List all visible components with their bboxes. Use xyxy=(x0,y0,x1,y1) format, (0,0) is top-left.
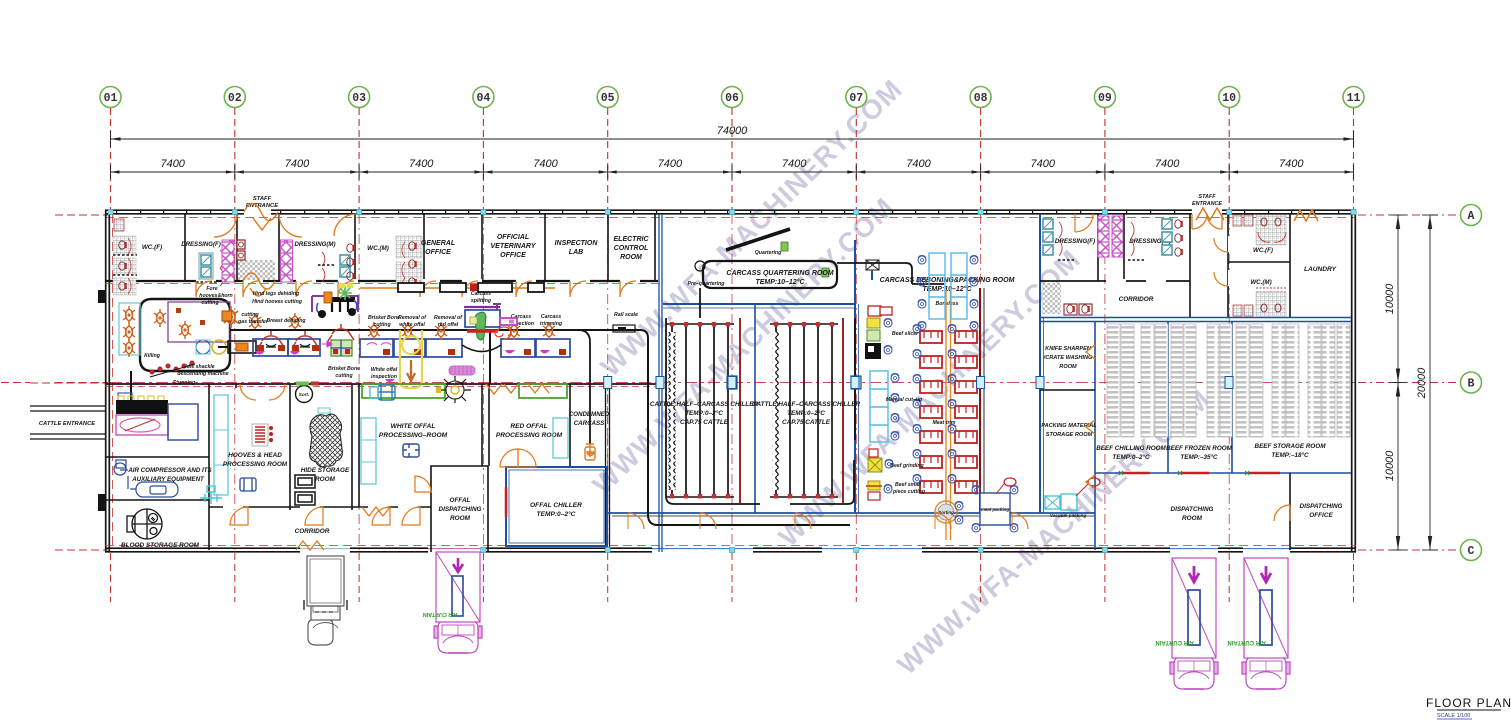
left section inner walls xyxy=(208,384,210,550)
carcass splitting cluster xyxy=(462,304,517,352)
mid horizontal wall at B left section xyxy=(105,383,236,385)
svg-text:ROOM: ROOM xyxy=(1059,364,1077,370)
svg-text:A: A xyxy=(1468,210,1475,223)
rack rooms verticals xyxy=(1094,322,1096,550)
svg-text:Beef slicer: Beef slicer xyxy=(892,331,919,337)
red offal room walls xyxy=(488,384,490,466)
electric control room right wall / quartering left blue wall xyxy=(654,214,656,281)
svg-text:7400: 7400 xyxy=(285,158,310,170)
svg-text:CARCASS: CARCASS xyxy=(574,420,605,427)
top band bottom wall xyxy=(105,280,658,282)
svg-text:TEMP:–18°C: TEMP:–18°C xyxy=(1271,451,1309,459)
svg-text:OFFICE: OFFICE xyxy=(425,249,451,256)
killing pen xyxy=(119,303,140,355)
hall machines row xyxy=(196,340,256,354)
condemned rail lamp xyxy=(585,447,595,460)
svg-text:Manual cut–up: Manual cut–up xyxy=(886,397,922,403)
svg-text:White offal: White offal xyxy=(371,367,398,373)
svg-text:BEEF STORAGE ROOM: BEEF STORAGE ROOM xyxy=(1255,443,1327,450)
svg-text:Removal of: Removal of xyxy=(398,315,427,321)
svg-text:piece cutting: piece cutting xyxy=(892,489,926,495)
svg-text:07: 07 xyxy=(849,92,863,105)
deboning: overhead rail orange xyxy=(946,290,951,540)
svg-text:Sort.: Sort. xyxy=(299,392,309,397)
svg-text:hooves&horn: hooves&horn xyxy=(199,293,232,299)
staff entrance opening 1 (white gaps in top wall) xyxy=(244,209,271,216)
rack rooms top blue double wall xyxy=(1040,318,1351,322)
svg-text:10000: 10000 xyxy=(1384,283,1396,314)
svg-text:74000: 74000 xyxy=(717,125,748,137)
main line black y330 xyxy=(230,329,640,331)
svg-text:20000: 20000 xyxy=(1416,367,1428,399)
svg-text:CONTROL: CONTROL xyxy=(614,245,649,252)
pallet racks room3 xyxy=(1236,324,1249,437)
svg-text:RED OFFAL: RED OFFAL xyxy=(510,423,547,430)
svg-text:Stunning: Stunning xyxy=(173,380,196,386)
svg-text:03: 03 xyxy=(352,92,366,105)
top band: WC(F) fixtures xyxy=(113,219,137,295)
svg-text:Meat trim: Meat trim xyxy=(932,420,955,426)
door arcs lower area xyxy=(230,507,248,525)
refrigerated truck 2 xyxy=(1155,558,1218,689)
offal dispatching room xyxy=(431,466,488,552)
corridor wall left bottom xyxy=(209,506,431,508)
air compressor tank xyxy=(114,460,178,497)
svg-text:TEMP:10–12°C: TEMP:10–12°C xyxy=(922,285,972,293)
right section: top rooms partitions xyxy=(1097,214,1099,281)
row bubbles A B C right side xyxy=(1461,205,1482,226)
quartering rail risers xyxy=(979,288,981,513)
svg-text:BLOOD STORAGE ROOM: BLOOD STORAGE ROOM xyxy=(121,542,200,549)
svg-text:cutting: cutting xyxy=(201,300,219,306)
grid column bubbles 01-11 xyxy=(100,87,121,108)
svg-text:ROOM: ROOM xyxy=(620,254,642,261)
svg-text:Carcass: Carcass xyxy=(471,291,491,297)
WC(F) right xyxy=(1233,215,1286,245)
svg-text:ROOM: ROOM xyxy=(450,515,471,522)
svg-text:Quartering: Quartering xyxy=(755,250,782,256)
offal chiller blue room xyxy=(506,467,607,546)
svg-text:Brisket Bone: Brisket Bone xyxy=(328,366,360,372)
overhead platform row xyxy=(360,287,555,289)
svg-text:HOOVES & HEAD: HOOVES & HEAD xyxy=(228,452,282,459)
gray truck at dock 03 xyxy=(304,556,347,645)
svg-text:FLOOR PLAN: FLOOR PLAN xyxy=(1426,696,1511,710)
svg-text:TEMP:0–2°C: TEMP:0–2°C xyxy=(1112,453,1150,461)
rack rooms bottom wall with red doors xyxy=(1095,472,1351,474)
svg-text:01: 01 xyxy=(104,92,118,105)
svg-text:Pre–quartering: Pre–quartering xyxy=(688,281,726,287)
svg-text:ROOM: ROOM xyxy=(1182,515,1203,522)
zigzag symbols on B wall and bottom docks xyxy=(362,507,390,516)
pallet racks room1 xyxy=(1107,324,1120,437)
svg-text:Beef grinding: Beef grinding xyxy=(890,463,924,469)
chiller return conveyors xyxy=(666,318,855,504)
svg-text:7400: 7400 xyxy=(782,158,807,170)
svg-text:STAFF: STAFF xyxy=(253,196,272,202)
svg-text:Hind legs dehiding: Hind legs dehiding xyxy=(253,291,300,297)
svg-text:CATTLE ENTRANCE: CATTLE ENTRANCE xyxy=(39,421,96,427)
svg-text:09: 09 xyxy=(1098,92,1112,105)
svg-text:TEMP:0–2°C: TEMP:0–2°C xyxy=(787,409,825,417)
pallet racks room2 xyxy=(1171,324,1183,437)
svg-text:DRESSING(M): DRESSING(M) xyxy=(295,241,336,248)
deboning room right blue wall xyxy=(1039,214,1041,513)
svg-text:meat packing: meat packing xyxy=(981,507,1009,512)
svg-text:CORRIDOR: CORRIDOR xyxy=(295,528,330,535)
svg-text:B: B xyxy=(1468,378,1475,391)
svg-text:STAFF: STAFF xyxy=(1199,194,1217,200)
svg-text:Fore: Fore xyxy=(206,286,217,292)
meat packing table xyxy=(972,478,1018,532)
condemned carcass passage wall xyxy=(606,384,610,551)
lattice screens right section xyxy=(1098,216,1109,257)
svg-text:VETERINARY: VETERINARY xyxy=(491,243,537,250)
hooves machine red xyxy=(252,424,273,446)
deboning left equipment column xyxy=(865,306,892,359)
hooves room rack cyan xyxy=(214,395,228,495)
svg-text:OFFAL CHILLER: OFFAL CHILLER xyxy=(530,502,582,509)
hide pile crosshatch xyxy=(310,414,343,467)
svg-text:OFFAL: OFFAL xyxy=(450,497,471,504)
svg-text:DISPATCHING: DISPATCHING xyxy=(1299,503,1342,510)
window mullion ticks on top wall xyxy=(116,210,117,215)
cyan sprayer cluster xyxy=(200,486,222,504)
sort circle xyxy=(296,386,313,403)
corridor door arcs right half xyxy=(628,513,644,529)
dressing(F) right: lockers xyxy=(1043,219,1053,229)
wall y384 from hooves to white offal xyxy=(236,383,660,385)
svg-text:7400: 7400 xyxy=(1031,158,1056,170)
right corridor xyxy=(1042,283,1061,314)
magenta comb conveyor xyxy=(449,366,475,375)
dock openings in bottom wall xyxy=(300,547,350,553)
orange squiggles on rack room left wall xyxy=(1086,345,1095,489)
svg-text:Hind hooves cutting: Hind hooves cutting xyxy=(252,299,303,305)
refrigerated truck 1 (offal dock) xyxy=(423,552,482,653)
svg-text:INSPECTION: INSPECTION xyxy=(555,240,599,247)
svg-text:CARCASS DEBONING&PACKING ROO: CARCASS DEBONING&PACKING ROOM xyxy=(880,277,1015,284)
beef grinding xyxy=(868,449,893,472)
blood storage tank xyxy=(127,509,162,539)
svg-text:white offal: white offal xyxy=(399,322,425,328)
WC door openings right xyxy=(1228,236,1231,252)
grid vertical dashed lines (through building) xyxy=(234,214,236,551)
quartering room rail loop xyxy=(695,229,944,288)
svg-text:TEMP:–35°C: TEMP:–35°C xyxy=(1180,453,1218,461)
chiller red risers xyxy=(739,318,741,503)
svg-text:Carcass: Carcass xyxy=(541,314,561,320)
slaughter hall: conveyor loop xyxy=(140,299,230,371)
building outer wall bottom xyxy=(105,548,1356,552)
svg-text:descending machine: descending machine xyxy=(177,371,228,377)
svg-text:CATTLE HALF–CARCASS CHILLER: CATTLE HALF–CARCASS CHILLER xyxy=(650,401,759,408)
top dimension line 74000 xyxy=(111,138,1354,140)
svg-text:Brisket Bone: Brisket Bone xyxy=(368,315,400,321)
stunning box xyxy=(130,371,132,400)
hide press boxes xyxy=(295,475,315,505)
beef small piece cutting xyxy=(866,481,892,500)
vacuum packing xyxy=(1045,478,1100,518)
svg-text:gas transfer: gas transfer xyxy=(237,319,269,325)
grid vertical dashed lines (top) xyxy=(110,108,112,212)
svg-text:7400: 7400 xyxy=(906,158,931,170)
pre-quartering hoist xyxy=(866,260,879,280)
bottom corridor top wall (right half) xyxy=(608,512,1095,514)
work tables row xyxy=(253,331,320,356)
svg-text:7400: 7400 xyxy=(1155,158,1180,170)
svg-text:10: 10 xyxy=(1222,92,1236,105)
white offal room xyxy=(362,384,445,398)
sorting turntable xyxy=(935,501,963,524)
holding pen purple xyxy=(168,302,230,342)
svg-text:11: 11 xyxy=(1347,92,1361,105)
white offal inspection chute xyxy=(400,330,422,388)
svg-text:PROCESSING ROOM: PROCESSING ROOM xyxy=(223,461,288,468)
lattice screen right xyxy=(281,240,293,282)
svg-text:CAP.75 CATTLE: CAP.75 CATTLE xyxy=(680,419,729,426)
lattice screen left xyxy=(222,240,234,282)
hind legs cutting platform xyxy=(312,283,358,318)
svg-text:OFFICE: OFFICE xyxy=(1309,512,1333,519)
svg-text:DISPATCHING: DISPATCHING xyxy=(1170,506,1213,513)
svg-text:ENTRANCE: ENTRANCE xyxy=(1192,201,1222,207)
svg-text:Idle shackle: Idle shackle xyxy=(185,364,215,370)
hall cattle on conveyor xyxy=(154,309,166,327)
building outer wall right xyxy=(1352,210,1356,552)
svg-text:OFFICE: OFFICE xyxy=(500,252,526,259)
svg-text:SCALE 1/100: SCALE 1/100 xyxy=(1437,713,1470,719)
svg-text:DRESSING(F): DRESSING(F) xyxy=(181,241,221,248)
cattle entrance chute left xyxy=(30,406,105,439)
svg-text:Vacuum packing: Vacuum packing xyxy=(1050,513,1087,518)
chiller complex blue walls xyxy=(663,303,855,305)
svg-text:LAUNDRY: LAUNDRY xyxy=(1304,266,1337,273)
svg-text:06: 06 xyxy=(725,92,739,105)
bay dimension line 7400 x10 xyxy=(111,171,1354,173)
svg-text:Removal of: Removal of xyxy=(434,315,463,321)
door openings in top band bottom wall xyxy=(196,279,216,283)
svg-text:ROOM: ROOM xyxy=(315,476,336,483)
svg-text:WC.(F): WC.(F) xyxy=(142,244,162,251)
svg-text:TEMP:0–2°C: TEMP:0–2°C xyxy=(685,409,723,417)
building outer wall left xyxy=(106,210,110,552)
svg-text:CONDEMNED: CONDEMNED xyxy=(569,411,610,418)
svg-text:10000: 10000 xyxy=(1384,450,1396,481)
svg-text:cutting: cutting xyxy=(373,322,391,328)
right dimension lines 10000/20000 xyxy=(1397,215,1399,550)
svg-text:cutting: cutting xyxy=(335,373,353,379)
svg-text:trimming: trimming xyxy=(540,321,563,327)
svg-text:WC.(M): WC.(M) xyxy=(1250,279,1271,286)
svg-text:CAP.75 CATTLE: CAP.75 CATTLE xyxy=(782,419,831,426)
svg-text:WHITE OFFAL: WHITE OFFAL xyxy=(391,423,436,430)
left wall exterior stubs xyxy=(98,290,106,303)
svg-text:TEMP:0–2°C: TEMP:0–2°C xyxy=(537,510,576,518)
cattle half-carcass chiller rails group 1 xyxy=(666,323,734,325)
svg-text:WC.(F): WC.(F) xyxy=(1253,247,1273,254)
right staff entrance door arcs+zigzag xyxy=(1192,214,1207,229)
svg-text:TEMP:10–12°C: TEMP:10–12°C xyxy=(755,278,805,286)
svg-text:CORRIDOR: CORRIDOR xyxy=(1119,296,1154,303)
svg-text:splitting: splitting xyxy=(471,298,492,304)
white offal room walls xyxy=(358,384,360,507)
top band room partitions xyxy=(184,214,186,281)
svg-text:GENERAL: GENERAL xyxy=(421,240,455,247)
svg-text:04: 04 xyxy=(476,92,490,105)
svg-text:C: C xyxy=(1468,545,1475,558)
svg-text:CARCASS QUARTERING ROOM: CARCASS QUARTERING ROOM xyxy=(726,270,833,277)
row B dash-dot line through building xyxy=(110,382,1355,384)
condemned carcass rail xyxy=(578,330,590,444)
door arcs below top band wall xyxy=(196,281,212,297)
svg-text:08: 08 xyxy=(974,92,988,105)
svg-text:7400: 7400 xyxy=(409,158,434,170)
svg-text:Rail scale: Rail scale xyxy=(614,312,638,318)
cyan wall junction markers xyxy=(108,209,113,214)
svg-text:CATTLE HALF–CARCASS CHILLER: CATTLE HALF–CARCASS CHILLER xyxy=(752,401,861,408)
svg-text:7400: 7400 xyxy=(160,158,185,170)
svg-text:STORAGE ROOM: STORAGE ROOM xyxy=(1046,432,1093,438)
svg-text:Beef small: Beef small xyxy=(895,482,922,488)
deboning cyan tables top xyxy=(929,253,967,319)
svg-text:7400: 7400 xyxy=(533,158,558,170)
svg-text:DRESSING(F): DRESSING(F) xyxy=(1055,238,1095,245)
svg-text:ELECTRIC: ELECTRIC xyxy=(614,236,650,243)
svg-text:LAB: LAB xyxy=(569,249,583,256)
svg-text:BEEF CHILLING ROOM: BEEF CHILLING ROOM xyxy=(1096,445,1166,452)
svg-text:KNIFE SHARPEN: KNIFE SHARPEN xyxy=(1045,346,1092,352)
svg-text:PROCESSING–ROOM: PROCESSING–ROOM xyxy=(379,432,448,439)
door arcs hooves room top xyxy=(240,384,256,400)
svg-text:Boneless: Boneless xyxy=(935,301,958,307)
row horizontal dashed lines xyxy=(55,214,108,216)
svg-text:DISPATCHING: DISPATCHING xyxy=(438,506,481,513)
grid vertical dashed lines (below building) xyxy=(110,553,112,602)
offal grinder cow top xyxy=(436,376,471,403)
dispatching office wall xyxy=(1289,473,1291,550)
svg-text:red offal: red offal xyxy=(438,322,459,328)
svg-text:WC.(M): WC.(M) xyxy=(367,245,389,252)
svg-text:7400: 7400 xyxy=(658,158,683,170)
svg-text:BEEF FROZEN ROOM: BEEF FROZEN ROOM xyxy=(1166,445,1233,452)
red offal room xyxy=(519,384,567,398)
svg-text:05: 05 xyxy=(601,92,615,105)
svg-text:Breast dehiding: Breast dehiding xyxy=(266,318,306,324)
svg-text:Killing: Killing xyxy=(144,353,161,359)
building outer wall top xyxy=(105,210,1356,214)
svg-text:HIDE STORAGE: HIDE STORAGE xyxy=(301,467,350,474)
hooves/hide rooms walls xyxy=(235,384,237,388)
descending shackles red dots xyxy=(150,361,195,377)
manual cut-up cyan table xyxy=(870,371,888,442)
cutting transfer cow orange big xyxy=(224,306,238,328)
svg-text:cutting: cutting xyxy=(241,312,259,318)
vestibule sinks xyxy=(237,240,245,249)
svg-text:/CRATE WASHING: /CRATE WASHING xyxy=(1043,355,1093,361)
svg-text:7400: 7400 xyxy=(1279,158,1304,170)
svg-text:AIR COMPRESSOR AND ITS: AIR COMPRESSOR AND ITS xyxy=(127,467,212,474)
svg-text:OFFICIAL: OFFICIAL xyxy=(497,234,529,241)
cattle half-carcass chiller rails group 2 xyxy=(770,323,838,325)
svg-text:02: 02 xyxy=(228,92,242,105)
deboning red tables rows xyxy=(920,331,942,343)
